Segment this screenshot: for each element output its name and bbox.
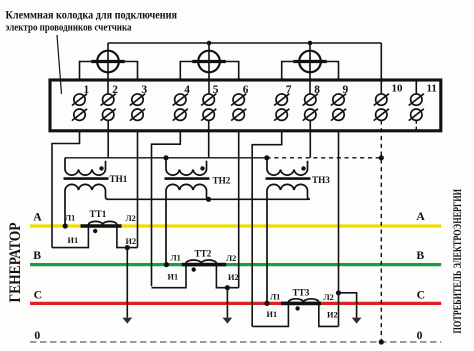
svg-text:И2: И2 (327, 311, 338, 320)
voltage transformer TH1 (64, 158, 109, 226)
junction dot bus/TH3 (264, 155, 269, 160)
wire terminal 4 stub + el2 left bracket (180, 62, 192, 82)
earth wire TT2 (226, 288, 228, 318)
voltage transformer TH3 (266, 158, 311, 304)
svg-text:ТТ3: ТТ3 (293, 288, 310, 298)
earth arrow TT3 (352, 318, 362, 324)
annotation pointer line (57, 35, 62, 94)
wire terminal 6 down to CT2 I2 (238, 130, 240, 288)
terminal 8 (303, 94, 318, 121)
svg-text:С: С (34, 289, 42, 302)
wire terminal 7 stub + el3 left bracket (282, 62, 294, 82)
svg-text:0: 0 (417, 329, 423, 342)
VT primary star wire W2 (107, 198, 309, 200)
polarity dot TT3 (295, 306, 299, 310)
VT secondary star bus dashed (267, 157, 382, 159)
current transformer TT2 (152, 260, 239, 288)
svg-text:1: 1 (84, 84, 90, 96)
wire terminal 8 to VT bus (309, 120, 311, 158)
svg-text:В: В (33, 249, 41, 262)
earth wire TT3 (tap above phase C on terminal 9 wire) (339, 293, 357, 318)
current transformer TT3 (252, 299, 338, 327)
terminal 10 dashed earthing wire (380, 120, 382, 342)
svg-text:И1: И1 (267, 310, 278, 319)
svg-text:Л1: Л1 (270, 293, 280, 302)
earth arrow TT1 (122, 318, 132, 324)
meter element 3: voltage coil circle + current coil bar (293, 51, 327, 73)
polarity dot TT1 (93, 229, 97, 233)
polarity dot TT2 (192, 267, 196, 271)
terminal 9 (331, 94, 346, 121)
junction dot phase A / TH1 primary (63, 223, 68, 228)
svg-text:И1: И1 (168, 273, 179, 282)
meter element 1: voltage coil circle + current coil bar (91, 51, 125, 73)
terminal 2 (101, 94, 116, 121)
junction dot W1/el3 (308, 41, 313, 46)
wire terminal 1 down jog to CT1 I1 (52, 130, 80, 248)
svg-text:В: В (416, 249, 424, 262)
svg-text:Клеммная колодка для подключен: Клеммная колодка для подключения (6, 10, 178, 22)
svg-text:А: А (416, 210, 425, 223)
phase C line (red) (30, 302, 441, 305)
terminal 3 (130, 94, 145, 121)
polarity dot TH2 (200, 166, 204, 170)
wire el3 right bracket + terminal 9 stub (327, 62, 339, 82)
svg-text:4: 4 (184, 84, 190, 96)
svg-text:И2: И2 (126, 237, 137, 246)
wire el3 vertical to terminal 8 (309, 43, 311, 94)
svg-text:3: 3 (142, 84, 148, 96)
svg-text:0: 0 (34, 329, 40, 342)
svg-text:электро проводников счетчика: электро проводников счетчика (6, 22, 132, 34)
terminal 1 (72, 94, 87, 121)
svg-text:11: 11 (427, 83, 437, 95)
phase A line (yellow) (30, 224, 441, 227)
terminal 4 (173, 94, 188, 121)
wire W1 voltage-coil common (108, 42, 381, 44)
svg-text:5: 5 (213, 84, 219, 96)
svg-text:И1: И1 (68, 236, 79, 245)
junction dot bus/TH2 (163, 155, 168, 160)
terminal 5 (201, 94, 216, 121)
svg-text:ТН3: ТН3 (312, 175, 330, 185)
wire terminal 2 to VT bus (107, 120, 109, 158)
wire terminal 9 down to CT3 I2 (338, 130, 340, 326)
junction dot phase B / TH2 primary (164, 262, 169, 267)
svg-text:6: 6 (243, 84, 249, 96)
junction dot bus/terminal10 wire (379, 155, 384, 160)
earth arrow TT2 (223, 318, 233, 324)
svg-text:И2: И2 (228, 273, 239, 282)
svg-text:ГЕНЕРАТОР: ГЕНЕРАТОР (7, 222, 24, 302)
meter element 2: voltage coil circle + current coil bar (192, 51, 226, 73)
svg-text:Л1: Л1 (171, 254, 181, 263)
wire terminal 4 down jog to CT2 I1 (152, 130, 181, 286)
wire el1 right bracket + terminal 3 stub (125, 62, 138, 82)
svg-text:10: 10 (392, 83, 404, 95)
polarity dot TH1 (99, 166, 103, 170)
svg-text:8: 8 (314, 84, 320, 96)
wire terminal 11 top stub (415, 81, 417, 94)
svg-text:Л2: Л2 (126, 214, 136, 223)
earth wire TT1 (126, 248, 128, 318)
VT secondary star bus solid (65, 157, 267, 159)
wire terminal 7 down jog to CT3 I1 (252, 130, 282, 326)
wire el1 vertical to terminal 2 (107, 43, 109, 94)
neutral 0 line (dashed) (30, 341, 441, 343)
svg-text:Л1: Л1 (65, 214, 75, 223)
terminal 11 dashed stub (415, 120, 417, 130)
svg-text:ТТ1: ТТ1 (90, 209, 107, 219)
voltage transformer TH2 (165, 158, 210, 265)
svg-text:ТТ2: ТТ2 (195, 249, 212, 259)
terminal block (50, 80, 441, 131)
terminal 10 (374, 94, 389, 121)
wire terminal 5 to VT bus (208, 120, 210, 158)
svg-text:С: С (417, 289, 425, 302)
terminal 11 (409, 94, 424, 121)
current transformer TT1 (52, 221, 138, 247)
terminal 7 (274, 94, 289, 121)
wire W1 corner down to terminal 10 (380, 43, 382, 94)
svg-text:ПОТРЕБИТЕЛЬ ЭЛЕКТРОЭНЕРГИИ: ПОТРЕБИТЕЛЬ ЭЛЕКТРОЭНЕРГИИ (452, 189, 464, 334)
junction dot W2/TH2-terminal5 (206, 197, 211, 202)
junction dot neutral / earth wire (379, 339, 384, 344)
svg-text:Л2: Л2 (324, 293, 334, 302)
svg-text:Л2: Л2 (226, 254, 236, 263)
wire el2 right bracket + terminal 6 stub (226, 62, 239, 82)
junction dot phase C / TH3 primary (264, 301, 269, 306)
svg-text:9: 9 (343, 84, 349, 96)
wire el2 vertical to terminal 5 (208, 43, 210, 94)
svg-text:2: 2 (112, 84, 118, 96)
junction dot W1/el2 (207, 41, 212, 46)
polarity dot TH3 (301, 166, 305, 170)
svg-text:7: 7 (286, 84, 292, 96)
wire terminal 3 down to CT1 I2 (137, 130, 139, 248)
svg-text:А: А (33, 210, 42, 223)
wire terminal 1 stub + el1 left bracket (80, 62, 92, 82)
phase B line (green) (30, 263, 441, 266)
svg-text:ТН2: ТН2 (213, 176, 231, 186)
terminal 6 (231, 94, 246, 121)
svg-text:ТН1: ТН1 (110, 174, 128, 184)
